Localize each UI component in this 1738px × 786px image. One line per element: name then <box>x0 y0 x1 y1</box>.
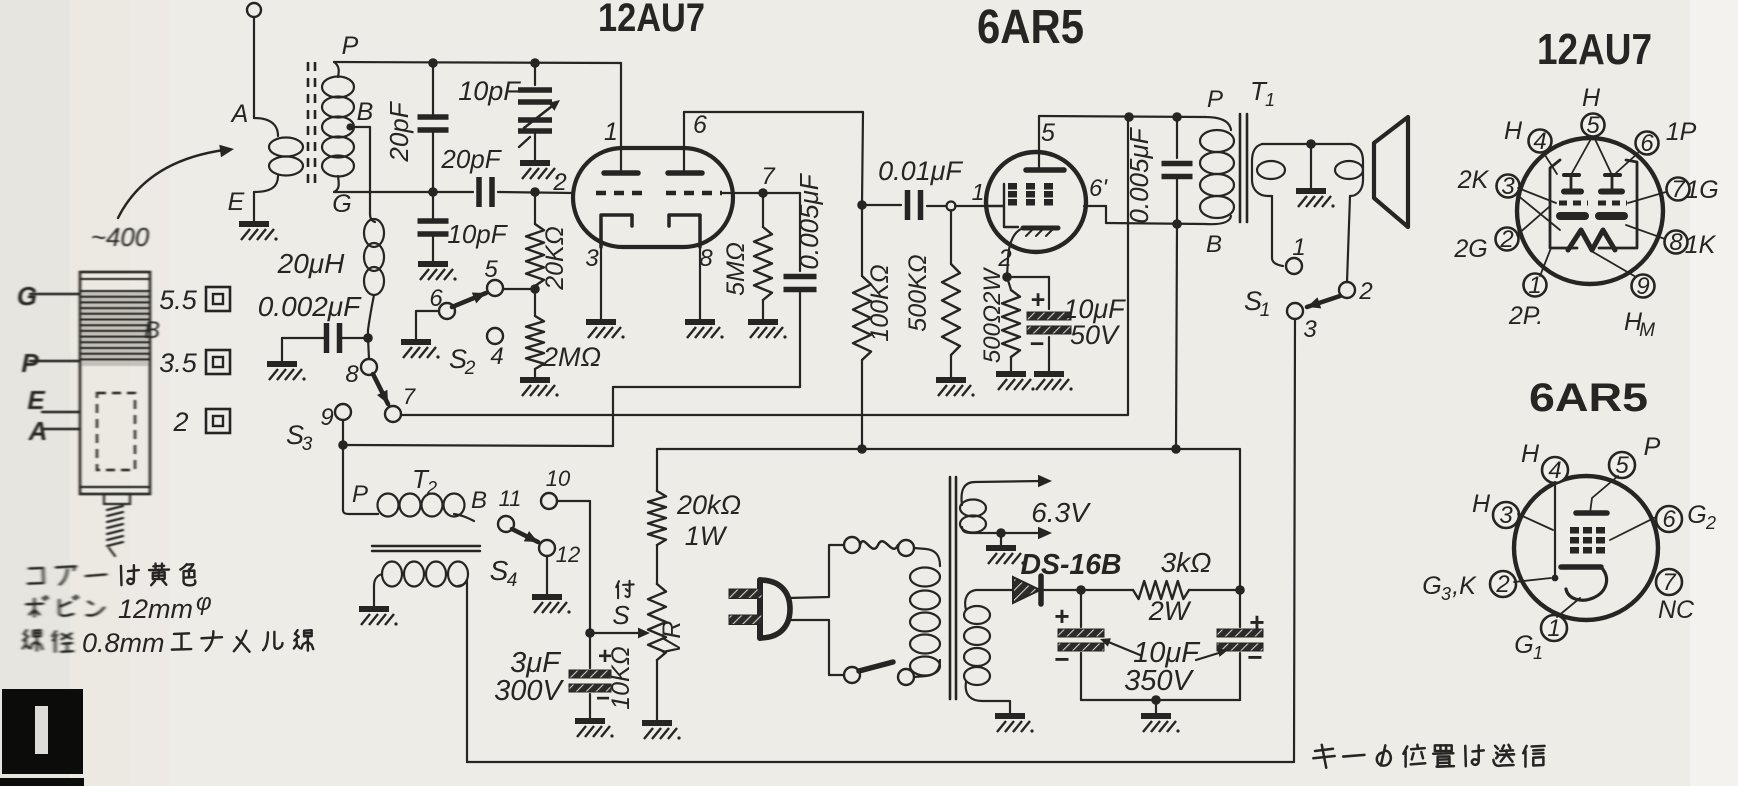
label 5M <box>722 242 750 296</box>
tube 6AR5 plate <box>1026 116 1064 170</box>
label 0.005uF <box>794 172 824 269</box>
label pin5 <box>1041 119 1055 147</box>
PT HV winding <box>964 590 1013 714</box>
power switch <box>844 662 914 685</box>
T1in core dashed <box>308 62 315 185</box>
plug prong 2 <box>729 615 762 625</box>
svg-text:7: 7 <box>1662 569 1677 596</box>
node <box>530 58 540 68</box>
node <box>857 200 867 210</box>
resistor 500ohm 2W <box>1002 277 1020 372</box>
label 10pF <box>447 219 508 249</box>
svg-text:10pF: 10pF <box>447 219 508 249</box>
transformer T1 primary <box>1200 117 1234 224</box>
minus <box>1030 330 1045 358</box>
svg-text:2: 2 <box>997 245 1011 272</box>
svg-text:20kΩ: 20kΩ <box>676 490 741 520</box>
wire plug top <box>788 545 844 598</box>
T2 core <box>372 546 480 551</box>
node <box>1124 112 1134 122</box>
label 20K <box>541 226 569 291</box>
tube plate2 lead <box>683 112 685 173</box>
svg-text:5: 5 <box>1615 452 1629 479</box>
svg-text:P: P <box>1207 86 1223 113</box>
label 350V <box>1124 648 1228 697</box>
pin 3 12AU7 <box>1497 173 1520 200</box>
tube grid1 dashed <box>596 191 648 196</box>
svg-text:+: + <box>1054 601 1069 631</box>
label 20k <box>676 490 741 520</box>
svg-text:P: P <box>342 32 359 60</box>
node <box>758 188 768 198</box>
transformer T2 secondary <box>374 562 468 763</box>
wire B+ drop <box>1176 224 1177 449</box>
tube cathode2 <box>669 215 700 247</box>
label 500ohm2W <box>979 267 1006 364</box>
label B T2 <box>471 487 487 514</box>
label H left <box>1504 117 1523 145</box>
capacitor 0.005uF C9 <box>1162 117 1193 224</box>
svg-text:12mm: 12mm <box>118 594 193 624</box>
node <box>428 58 438 68</box>
svg-text:12AU7: 12AU7 <box>598 0 705 40</box>
svg-text:4: 4 <box>507 570 518 591</box>
wire 9 down <box>342 420 344 445</box>
note line 3: 0.8mm enamel wire <box>23 628 313 658</box>
turns label 5.5 with box symbol <box>159 285 230 315</box>
label VR <box>658 621 686 656</box>
svg-text:6AR5: 6AR5 <box>1529 376 1648 420</box>
capacitor 10uF 50V <box>1007 277 1071 372</box>
node <box>1002 272 1012 282</box>
resistor 3k 2W <box>1081 581 1240 599</box>
label G <box>332 190 351 218</box>
fuse <box>844 537 914 556</box>
ground 10uF <box>1034 374 1073 391</box>
svg-text:2K: 2K <box>1457 166 1490 194</box>
wire <box>416 311 439 340</box>
label P 5 <box>1644 433 1661 461</box>
svg-text:E: E <box>228 188 245 216</box>
switch S1 terminal 2 <box>1339 278 1373 305</box>
svg-text:G: G <box>1422 572 1441 600</box>
label 0.01uF <box>878 156 963 186</box>
wire PS bottom <box>1081 699 1240 701</box>
capacitor 3uF 300V <box>569 633 611 719</box>
svg-text:6: 6 <box>1662 506 1676 533</box>
capacitor 20pF series <box>479 177 492 207</box>
svg-text:5.5: 5.5 <box>159 285 198 315</box>
svg-text:11: 11 <box>499 486 522 511</box>
trimmer capacitor 10pF <box>518 63 560 161</box>
node <box>530 187 540 197</box>
svg-text:0.002μF: 0.002μF <box>258 291 362 322</box>
wire 10 <box>557 501 590 633</box>
tube plate2 bar <box>668 170 702 176</box>
switch S1 terminal 3 <box>1287 303 1317 343</box>
svg-text:3kΩ: 3kΩ <box>1161 547 1212 578</box>
svg-text:NC: NC <box>1658 596 1695 624</box>
title 12AU7 pinout <box>1537 25 1652 74</box>
ground HV <box>995 716 1034 733</box>
label 1G <box>1685 176 1718 204</box>
svg-text:+: + <box>1031 286 1046 314</box>
switch S4 terminal 10 <box>541 466 571 509</box>
svg-text:500KΩ: 500KΩ <box>904 254 932 331</box>
svg-text:1: 1 <box>1547 615 1560 642</box>
title 6AR5 <box>977 1 1084 54</box>
svg-text:3: 3 <box>1441 584 1451 604</box>
svg-text:7: 7 <box>1671 176 1686 203</box>
switch terminal 4 <box>487 328 504 370</box>
svg-text:3: 3 <box>302 434 313 455</box>
pin 2 6AR5 <box>1490 571 1516 598</box>
label H top <box>1582 84 1601 112</box>
svg-text:8: 8 <box>1669 229 1683 256</box>
svg-text:500Ω2W: 500Ω2W <box>979 267 1006 364</box>
svg-text:2P.: 2P. <box>1508 302 1543 330</box>
wire P rail <box>334 62 621 63</box>
svg-text:P: P <box>21 348 39 378</box>
svg-text:6: 6 <box>693 111 707 139</box>
node <box>996 528 1006 538</box>
svg-text:350V: 350V <box>1124 665 1194 697</box>
switch S3 terminal 7 <box>385 384 416 422</box>
pin 1 12AU7 <box>1524 272 1547 299</box>
svg-text:6: 6 <box>1640 130 1654 157</box>
svg-text:G: G <box>332 190 351 218</box>
label 10pF trimmer <box>458 76 521 106</box>
plusA <box>1054 601 1069 631</box>
svg-text:,K: ,K <box>1452 572 1477 600</box>
node <box>585 628 595 638</box>
wire 6.3 gnd <box>1000 533 1002 546</box>
wire 12 gnd <box>546 556 548 595</box>
pin 3 6AR5 <box>1493 502 1519 529</box>
label 20pF series <box>440 144 502 174</box>
pin 7 6AR5 <box>1656 569 1682 596</box>
ground T2 sec <box>359 609 398 626</box>
svg-text:1: 1 <box>972 179 985 205</box>
wire <box>503 288 531 290</box>
wire plate rail from 7 <box>401 117 1128 415</box>
svg-text:G: G <box>17 281 37 311</box>
node <box>363 333 373 343</box>
label HM <box>1624 308 1655 341</box>
svg-text:20pF: 20pF <box>440 144 502 174</box>
svg-text:B: B <box>471 487 487 514</box>
svg-text:B: B <box>144 317 160 344</box>
label 10uF-350 <box>1100 637 1201 669</box>
node <box>530 284 540 294</box>
label 2P <box>1508 302 1543 330</box>
socket 12AU7 circle <box>1517 138 1663 284</box>
label H 4 <box>1521 440 1540 468</box>
svg-text:+: + <box>1249 607 1264 637</box>
label P opt <box>1207 86 1223 113</box>
svg-text:B: B <box>1206 231 1222 258</box>
label 1P <box>1666 118 1697 146</box>
label pin6 <box>693 111 707 139</box>
label G3K <box>1422 572 1477 604</box>
wire VR wiper <box>590 628 650 639</box>
pointer arrow to coil <box>118 145 234 218</box>
svg-text:−: − <box>1054 644 1069 674</box>
svg-text:M: M <box>1639 320 1655 341</box>
label 3uF <box>510 647 562 679</box>
svg-text:2G: 2G <box>1453 235 1487 263</box>
label T1 <box>1250 76 1275 110</box>
label 3k <box>1161 547 1212 578</box>
svg-text:4: 4 <box>1548 457 1561 484</box>
tube 6AR5 cathode <box>1008 228 1058 258</box>
node <box>338 440 348 450</box>
switch S3 terminal 9 <box>320 404 351 431</box>
node <box>1235 585 1245 595</box>
pin 8 12AU7 <box>1665 229 1688 256</box>
svg-text:100KΩ: 100KΩ <box>866 264 894 341</box>
label 10uF <box>1063 294 1126 324</box>
wire bottom rail <box>467 761 1294 763</box>
label S2 <box>449 344 476 379</box>
pin 6 12AU7 <box>1636 130 1659 157</box>
wire grid2 out <box>722 163 776 193</box>
svg-text:6.3V: 6.3V <box>1031 497 1091 528</box>
label G1 <box>1514 631 1543 663</box>
ground PS <box>1141 716 1180 733</box>
svg-text:300V: 300V <box>494 675 564 707</box>
label 100K <box>866 264 894 341</box>
svg-text:G: G <box>1687 501 1706 529</box>
label T2 <box>412 464 437 498</box>
svg-text:4: 4 <box>490 343 503 370</box>
switch S2 terminal 5 <box>484 256 503 296</box>
pin 1 6AR5 <box>1541 615 1567 642</box>
svg-text:1K: 1K <box>1685 231 1717 259</box>
svg-text:1: 1 <box>1265 90 1275 110</box>
svg-text:3: 3 <box>1303 316 1317 343</box>
label A <box>230 100 249 128</box>
caption key position is transmit <box>1313 745 1544 768</box>
wire fuse out <box>914 548 940 566</box>
capacitor 10pF C2 <box>418 192 449 262</box>
ground 500K <box>936 380 975 397</box>
pin 6 6AR5 <box>1656 506 1682 533</box>
svg-text:2: 2 <box>1705 513 1716 533</box>
wire B+ rail <box>657 448 1240 450</box>
label pin2 <box>552 169 566 196</box>
label 20pF <box>384 100 414 162</box>
wire vc right to S1-2 <box>1347 196 1350 282</box>
ground 500ohm <box>996 374 1035 391</box>
node <box>1172 112 1182 122</box>
svg-text:8: 8 <box>699 245 713 272</box>
label 6dash <box>1089 175 1108 202</box>
svg-text:3: 3 <box>585 245 599 272</box>
ground 6.3V <box>986 548 1025 565</box>
potentiometer VR 10K <box>648 545 666 721</box>
wire G rail <box>334 192 573 193</box>
switch S1 arm <box>1307 296 1340 308</box>
label 10K <box>607 646 635 710</box>
ground S2-6 <box>401 342 440 359</box>
plusB <box>1249 607 1264 637</box>
svg-text:12AU7: 12AU7 <box>1537 25 1652 74</box>
wire vc center tap <box>1310 144 1312 189</box>
svg-text:5: 5 <box>1041 119 1055 147</box>
ground E <box>239 224 278 241</box>
svg-text:3: 3 <box>1501 173 1515 200</box>
svg-text:1W: 1W <box>685 521 728 551</box>
svg-text:~400: ~400 <box>91 222 150 252</box>
resistor 5M <box>754 193 772 320</box>
transformer PT primary <box>910 568 940 676</box>
svg-text:2: 2 <box>426 478 437 498</box>
note line 1: core is yellow <box>28 564 195 586</box>
wire cathode1 gnd <box>585 245 601 320</box>
svg-text:10: 10 <box>546 466 571 491</box>
label 50V <box>1070 320 1121 350</box>
svg-text:9: 9 <box>320 404 333 431</box>
transformer T2 primary <box>378 494 475 522</box>
switch S3 arm 8-7 <box>373 374 388 404</box>
label 500K <box>904 254 932 331</box>
turns label 2 with box symbol <box>172 407 230 437</box>
antenna terminal <box>247 3 261 118</box>
svg-text:G: G <box>1514 631 1533 659</box>
label B <box>357 98 374 126</box>
wire gnd mid <box>1155 700 1157 714</box>
svg-text:1: 1 <box>1260 300 1271 321</box>
resistor 100K <box>853 205 871 449</box>
capacitor 0.005uF C5 <box>763 193 817 387</box>
resistor 2M <box>526 289 544 378</box>
svg-text:φ: φ <box>196 589 212 616</box>
svg-text:−: − <box>1030 330 1045 358</box>
svg-text:1: 1 <box>1292 234 1305 261</box>
PT 6.3V winding <box>960 475 1052 540</box>
svg-text:2: 2 <box>464 358 476 379</box>
label B opt <box>1206 231 1222 258</box>
capacitor 10uF-350 B <box>1217 449 1263 700</box>
tube 12AU7 envelope <box>573 148 733 247</box>
wire pin5 rail <box>1039 116 1205 117</box>
ground k2 <box>685 322 724 339</box>
wire switch out <box>914 660 940 677</box>
ground 0.002 <box>267 364 306 381</box>
svg-text:2: 2 <box>552 169 566 196</box>
T1in secondary coil <box>322 62 354 192</box>
plus <box>1031 286 1046 314</box>
svg-text:E: E <box>27 385 45 415</box>
wire cathode2 gnd <box>699 245 713 320</box>
label S-tsuki <box>612 581 633 630</box>
wire cathode down <box>997 245 1011 277</box>
tube grid2 dashed <box>666 191 722 196</box>
resistor 20k 1W <box>648 449 666 545</box>
svg-text:0.01μF: 0.01μF <box>878 156 963 186</box>
label 2W <box>1148 596 1192 626</box>
transformer T1 secondary / voice coil <box>1252 144 1363 196</box>
svg-text:0.8mm: 0.8mm <box>82 628 165 658</box>
svg-text:5MΩ: 5MΩ <box>722 242 750 296</box>
svg-text:5: 5 <box>484 256 498 283</box>
node <box>857 444 867 454</box>
ground k1 <box>586 322 625 339</box>
svg-text:A: A <box>230 100 249 128</box>
physical coil form drawing (smeared in scan) <box>17 222 160 556</box>
turns label 3.5 with box symbol <box>159 348 230 378</box>
resistor 20K grid <box>526 192 544 289</box>
wire screen 6dash <box>1084 206 1205 224</box>
node <box>1172 219 1182 229</box>
svg-text:6: 6 <box>429 285 443 312</box>
pin 2 12AU7 <box>1496 226 1519 253</box>
wire B tap <box>350 127 370 214</box>
svg-text:2: 2 <box>1499 226 1513 253</box>
wire plate2 rail <box>684 112 863 205</box>
svg-text:7: 7 <box>403 384 416 409</box>
ground 5M <box>748 322 787 339</box>
svg-text:2MΩ: 2MΩ <box>542 342 601 372</box>
capacitor 10uF-350 A <box>1058 590 1104 700</box>
label 300V <box>494 675 564 707</box>
label pin1 <box>604 118 618 146</box>
capacitor 0.01uF <box>862 190 946 220</box>
svg-text:1: 1 <box>1533 643 1543 663</box>
label DS-16B <box>1021 549 1122 581</box>
switch S3 terminal 8 <box>345 338 377 388</box>
label 0.005uF 2 <box>1124 126 1154 223</box>
node small <box>947 202 956 211</box>
plus 3uF <box>598 643 612 670</box>
pin 5 12AU7 <box>1582 112 1605 139</box>
svg-text:3.5: 3.5 <box>159 348 198 378</box>
note line 2: bobbin 12mm dia <box>26 589 211 624</box>
minusA <box>1054 644 1069 674</box>
speaker cone <box>1374 117 1408 227</box>
svg-text:VR: VR <box>658 621 686 656</box>
node <box>1151 695 1161 705</box>
capacitor 20pF C1 <box>418 63 449 192</box>
tube 6AR5 g1 frame <box>989 184 1018 227</box>
ground VR <box>642 723 681 740</box>
svg-text:B: B <box>357 98 374 126</box>
svg-text:2W: 2W <box>1148 596 1192 626</box>
transformer T1in primary coil <box>254 118 303 222</box>
svg-text:2: 2 <box>1495 571 1509 598</box>
label 2G <box>1453 235 1487 263</box>
switch S4 terminal 12 <box>539 540 580 567</box>
svg-text:1G: 1G <box>1685 176 1718 204</box>
minus 3uF <box>596 685 610 712</box>
svg-text:20μH: 20μH <box>277 248 345 279</box>
socket 6AR5 circle <box>1514 476 1658 620</box>
tube cathode1 <box>601 215 632 247</box>
svg-text:H: H <box>1472 490 1491 518</box>
pin 7 12AU7 <box>1667 176 1690 203</box>
pin 4 12AU7 <box>1529 128 1552 155</box>
svg-text:12: 12 <box>556 542 580 567</box>
pin 4 6AR5 <box>1542 457 1568 484</box>
label G2 <box>1687 501 1716 533</box>
wire key line <box>1294 319 1295 762</box>
ground vc <box>1296 191 1335 208</box>
svg-text:H: H <box>1504 117 1523 145</box>
svg-text:5: 5 <box>1586 112 1600 139</box>
switch S2 arm <box>452 293 486 308</box>
tube 6AR5 envelope <box>986 152 1086 252</box>
